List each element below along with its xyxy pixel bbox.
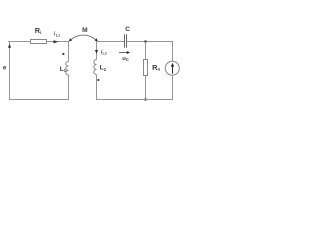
- current arrow iL2: [95, 50, 98, 54]
- coupling dot L1: [62, 53, 64, 55]
- svg-text:uC: uC: [122, 56, 129, 62]
- svg-text:Ra: Ra: [152, 63, 160, 72]
- svg-text:e: e: [3, 64, 7, 71]
- node junction top (Ra branch): [144, 40, 147, 43]
- svg-text:C: C: [125, 26, 130, 33]
- resistor Ri: [31, 40, 47, 44]
- coupling dot L2: [97, 79, 99, 81]
- wire left vertical (source branch): [9, 41, 11, 100]
- wire Ri to L1 corner: [47, 41, 70, 43]
- wire top-left horizontal (source to Ri): [8, 41, 31, 43]
- node junction bottom (Ra branch): [144, 98, 147, 101]
- wire L2 branch lower vertical: [96, 75, 98, 101]
- inductor L1 coil: [66, 62, 69, 76]
- svg-text:L2: L2: [100, 65, 107, 72]
- wire right vertical upper: [172, 41, 174, 61]
- current arrow iL1: [54, 40, 59, 43]
- svg-text:L1: L1: [56, 34, 60, 38]
- current source arrow: [172, 66, 174, 73]
- arrowhead M left: [69, 38, 72, 41]
- capacitor C plates: [124, 34, 126, 47]
- svg-text:L2: L2: [103, 52, 107, 56]
- inductor L2 coil: [94, 60, 97, 75]
- wire top secondary (L2 to C): [96, 41, 125, 43]
- voltage arrow uC: [119, 52, 128, 54]
- wire bottom secondary: [96, 99, 173, 101]
- wire right vertical lower: [172, 75, 174, 100]
- resistor Ra: [144, 60, 148, 76]
- wire L1 branch lower vertical: [68, 75, 70, 100]
- wire Ra branch upper: [145, 42, 147, 60]
- wire L1 branch upper vertical: [68, 41, 70, 62]
- mutual coupling arc M: [71, 35, 96, 40]
- wire Ra branch lower: [145, 76, 147, 101]
- arrowhead M right: [95, 38, 98, 41]
- svg-text:Ri: Ri: [35, 26, 42, 35]
- svg-text:M: M: [82, 27, 88, 34]
- wire top secondary (C to right corner): [127, 41, 174, 43]
- emf arrow e: [8, 44, 11, 48]
- current source circle: [165, 61, 179, 75]
- wire L2 branch upper vertical: [96, 41, 98, 60]
- wire bottom primary: [9, 99, 69, 101]
